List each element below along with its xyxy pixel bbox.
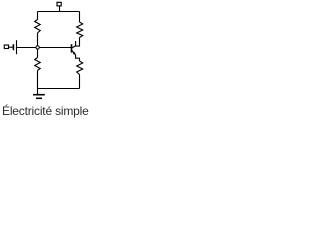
transistor Q1 emitter diagonal <box>72 50 76 55</box>
battery B1 long plate <box>16 40 18 54</box>
wire right branch upper <box>79 12 81 23</box>
wire right branch lower <box>79 75 81 89</box>
wire middle net to base <box>17 47 72 49</box>
resistor R1 <box>35 20 41 34</box>
wire left branch to junction <box>37 33 39 58</box>
title text <box>2 104 89 118</box>
transistor Q1 collector pin <box>75 41 77 46</box>
node junction dot <box>36 46 39 49</box>
wire emitter lead <box>76 55 80 61</box>
transistor Q1 base bar <box>71 44 73 52</box>
wire bottom rail <box>38 88 80 90</box>
battery B1 short plate <box>12 44 14 50</box>
wire left branch upper <box>37 12 39 20</box>
ground bar short <box>36 97 42 99</box>
wire top rail <box>38 11 80 13</box>
wire left branch lower <box>37 71 39 89</box>
wire collector lead <box>76 38 80 47</box>
ground stub <box>37 89 39 95</box>
resistor R3 <box>77 22 83 38</box>
wire port stub <box>59 6 61 12</box>
transistor Q1 collector diagonal <box>72 46 76 48</box>
transistor Q1 emitter arrow <box>73 52 76 55</box>
power port P1 <box>57 2 61 6</box>
ground bar wide <box>33 94 45 96</box>
wire battery left lead <box>9 46 13 48</box>
resistor R2 <box>35 58 41 71</box>
resistor R4 <box>77 61 83 75</box>
battery port square <box>4 45 8 49</box>
